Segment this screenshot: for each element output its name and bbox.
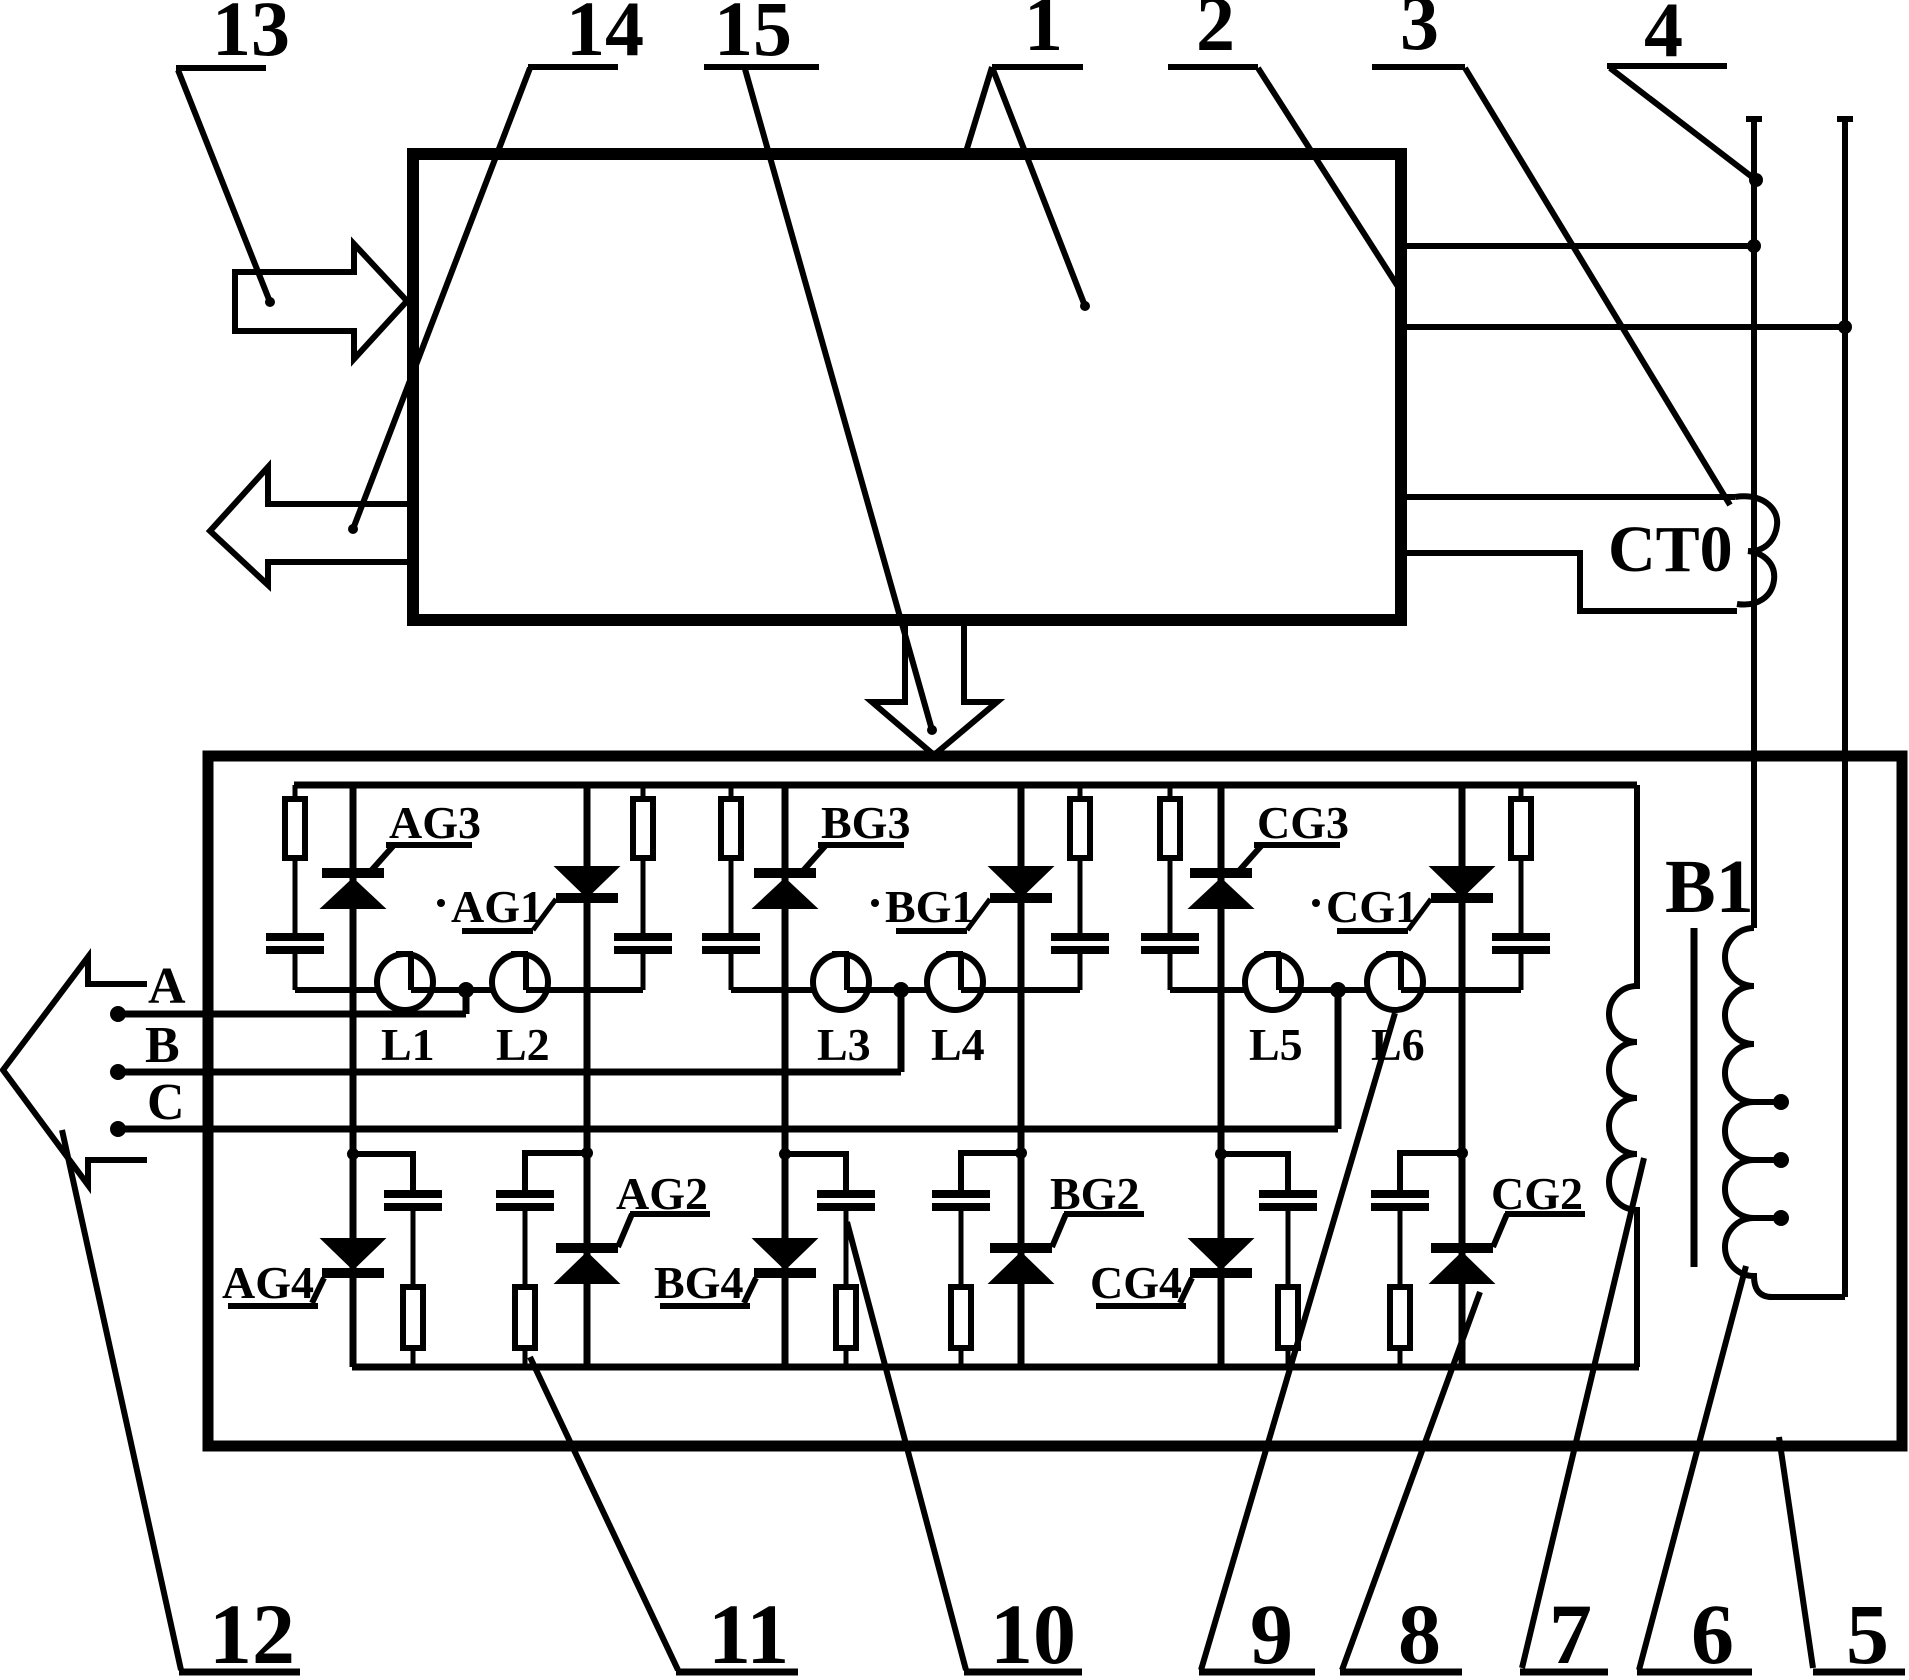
leader line 6: [1639, 1266, 1746, 1670]
leader line 8: [1342, 1292, 1480, 1670]
svg-text:CG4: CG4: [1090, 1257, 1182, 1308]
leader line 3: [1465, 68, 1730, 505]
svg-text:9: 9: [1250, 1586, 1293, 1680]
gate BG1: [967, 899, 990, 930]
bottom bus wire: [352, 1364, 1639, 1371]
svg-text:B: B: [145, 1017, 180, 1074]
svg-text:BG1: BG1: [885, 881, 974, 932]
gate AG4: [312, 1278, 324, 1303]
thyristor CG4: [1190, 1239, 1252, 1269]
leader line 10: [847, 1222, 966, 1670]
svg-text:5: 5: [1846, 1586, 1889, 1680]
capacitor CA1: [266, 933, 324, 941]
svg-text:L5: L5: [1249, 1019, 1303, 1070]
thyristor BG2: [990, 1243, 1052, 1253]
leader line 14: [353, 68, 530, 529]
transformer B1 secondary: [1725, 928, 1845, 1297]
bus vertical line 3: [1751, 116, 1757, 928]
svg-text:10: 10: [990, 1586, 1076, 1680]
capacitor CA4: [496, 1190, 554, 1198]
svg-text:11: 11: [708, 1586, 789, 1680]
gate CG4: [1180, 1278, 1192, 1303]
inductor L5: [1245, 954, 1301, 1010]
svg-text:B1: B1: [1665, 845, 1754, 929]
wire snubber AG4 hook: [353, 1154, 413, 1191]
junction hook CG2: [1456, 1147, 1468, 1159]
resistor RB2: [1078, 785, 1083, 799]
junction hook AG4: [347, 1148, 359, 1160]
capacitor CC3: [1259, 1190, 1317, 1198]
capacitor CC1: [1141, 933, 1199, 941]
thyristor AG3: [322, 868, 384, 878]
bus vertical line 4: [1842, 116, 1848, 1297]
svg-text:L1: L1: [381, 1019, 435, 1070]
resistor RC3: [1278, 1287, 1298, 1348]
top bus wire: [294, 782, 1637, 789]
leader line 7: [1522, 1158, 1644, 1668]
junction leader 4 on bus: [1749, 173, 1763, 187]
capacitor CA3: [384, 1190, 442, 1198]
svg-text:4: 4: [1644, 0, 1683, 73]
wire CT0 bottom step: [1404, 553, 1737, 611]
leader line 13: [178, 70, 270, 302]
leader line 2: [1258, 68, 1404, 296]
svg-text:C: C: [147, 1074, 185, 1131]
coil CT0: [1735, 496, 1777, 604]
svg-text:A: A: [148, 958, 186, 1015]
wire snubber B1 link: [731, 987, 813, 993]
resistor RB3: [836, 1287, 856, 1348]
down arrow: [872, 618, 997, 755]
tap 2 secondary: [1754, 1157, 1776, 1163]
wire CT0 top: [1404, 494, 1735, 500]
inductor L1: [377, 954, 433, 1010]
resistor RA4: [515, 1287, 535, 1348]
resistor RC1: [1168, 785, 1173, 799]
leader line 1b: [992, 67, 1085, 306]
thyristor column C left: [1218, 785, 1225, 1367]
svg-text:AG1: AG1: [451, 881, 543, 932]
svg-text:BG4: BG4: [654, 1257, 743, 1308]
wire loop link C: [1279, 987, 1338, 993]
svg-text:3: 3: [1400, 0, 1439, 66]
inductor L3: [813, 954, 869, 1010]
label CG1: [1312, 899, 1320, 907]
junction output line 2: [1838, 320, 1852, 334]
thyristor AG1: [556, 867, 618, 897]
junction output line 1: [1747, 239, 1761, 253]
junction hook BG2: [1015, 1147, 1027, 1159]
svg-text:L2: L2: [496, 1019, 550, 1070]
wire snubber CG2 hook: [1400, 1153, 1462, 1191]
resistor RC2: [1519, 785, 1524, 799]
transformer B1 primary: [1609, 785, 1637, 1367]
thyristor column B right: [1018, 785, 1025, 1367]
gate CG1: [1408, 899, 1431, 930]
resistor RA1: [293, 785, 298, 799]
resistor RB1: [729, 785, 734, 799]
wire snubber BG2 hook: [961, 1153, 1021, 1191]
wire snubber B2 link: [961, 987, 1080, 993]
gate CG2: [1493, 1214, 1507, 1247]
controller box 1: [413, 154, 1401, 620]
svg-text:CT0: CT0: [1608, 513, 1733, 586]
gate AG2: [618, 1214, 632, 1247]
label BG1: [871, 899, 879, 907]
resistor RC4: [1390, 1287, 1410, 1348]
wire snubber BG4 hook: [785, 1154, 846, 1191]
leader line 11: [530, 1357, 678, 1670]
leader line 12: [62, 1130, 181, 1670]
leader line 9: [1201, 1013, 1395, 1670]
junction loops B: [893, 982, 909, 998]
thyristor column A left: [350, 785, 357, 1367]
svg-text:12: 12: [209, 1586, 295, 1680]
svg-text:AG3: AG3: [389, 797, 481, 848]
capacitor CB3: [817, 1190, 875, 1198]
capacitor CC4: [1371, 1190, 1429, 1198]
riser phase C: [1335, 990, 1342, 1129]
wire loop link A: [411, 987, 466, 993]
gate AG3: [370, 845, 394, 872]
thyristor column B left: [782, 785, 789, 1367]
svg-text:CG3: CG3: [1257, 797, 1349, 848]
thyristor column A right: [584, 785, 591, 1367]
inductor L2: [492, 954, 548, 1010]
svg-text:AG4: AG4: [222, 1257, 314, 1308]
leader line 15: [745, 69, 932, 730]
svg-text:15: 15: [714, 0, 792, 72]
thyristor BG1: [990, 867, 1052, 897]
junction hook BG4: [779, 1148, 791, 1160]
leader line 4: [1610, 68, 1756, 180]
capacitor CC2: [1492, 933, 1550, 941]
leader line 1a: [965, 67, 992, 155]
wire snubber C2 link: [1401, 987, 1521, 993]
thyristor CG1: [1431, 867, 1493, 897]
svg-text:13: 13: [212, 0, 290, 72]
gate BG4: [744, 1278, 756, 1303]
wire snubber A2 link: [526, 987, 643, 993]
inductor L4: [927, 954, 983, 1010]
node phase C: [110, 1121, 126, 1137]
gate AG1: [533, 899, 556, 930]
resistor RA3: [403, 1287, 423, 1348]
gate BG2: [1052, 1214, 1066, 1247]
switch box 5: [208, 756, 1902, 1446]
svg-text:CG1: CG1: [1326, 881, 1418, 932]
inductor L6: [1367, 954, 1423, 1010]
phase C wire: [118, 1126, 1338, 1133]
thyristor AG4: [322, 1239, 384, 1269]
svg-text:L3: L3: [817, 1019, 871, 1070]
wire snubber A1 link: [295, 987, 377, 993]
junction loops A: [458, 982, 474, 998]
node phase B: [110, 1064, 126, 1080]
arrow tick bus 3: [1746, 116, 1762, 122]
wire snubber AG2 hook: [525, 1153, 587, 1191]
phase A wire: [118, 1011, 466, 1018]
thyristor AG2: [556, 1243, 618, 1253]
wire output line 1: [1404, 243, 1754, 249]
svg-text:2: 2: [1196, 0, 1235, 67]
junction hook AG2: [581, 1147, 593, 1159]
svg-text:8: 8: [1398, 1586, 1441, 1680]
thyristor column C right: [1459, 785, 1466, 1367]
wire snubber CG4 hook: [1221, 1154, 1288, 1191]
svg-text:14: 14: [566, 0, 644, 72]
node phase A: [110, 1006, 126, 1022]
thyristor BG4: [754, 1239, 816, 1269]
svg-text:7: 7: [1549, 1586, 1592, 1680]
junction hook CG4: [1215, 1148, 1227, 1160]
thyristor BG3: [754, 868, 816, 878]
capacitor CA2: [614, 933, 672, 941]
riser phase A: [463, 990, 470, 1014]
output arrow ABC: [3, 957, 147, 1185]
wire loop link B: [847, 987, 901, 993]
riser phase B: [898, 990, 905, 1072]
thyristor CG3: [1190, 868, 1252, 878]
arrow tick bus 4: [1837, 116, 1853, 122]
svg-text:L4: L4: [931, 1019, 985, 1070]
gate BG3: [802, 845, 826, 872]
resistor RA2: [641, 785, 646, 799]
wire snubber C1 link: [1170, 987, 1245, 993]
input arrow: [235, 244, 407, 359]
capacitor CB2: [1051, 933, 1109, 941]
phase B wire: [118, 1069, 901, 1076]
output arrow upper: [210, 467, 410, 585]
junction loops C: [1330, 982, 1346, 998]
gate CG3: [1238, 845, 1262, 872]
resistor RB4: [951, 1287, 971, 1348]
transformer B1 core: [1691, 928, 1698, 1267]
tap 3 secondary: [1754, 1215, 1776, 1221]
label AG1: [437, 899, 445, 907]
svg-text:1: 1: [1024, 0, 1063, 67]
leader line 5: [1779, 1437, 1813, 1668]
thyristor CG2: [1431, 1243, 1493, 1253]
capacitor CB4: [932, 1190, 990, 1198]
svg-text:6: 6: [1691, 1586, 1734, 1680]
svg-text:BG3: BG3: [821, 797, 910, 848]
capacitor CB1: [702, 933, 760, 941]
wire output line 2: [1404, 324, 1845, 330]
tap 1 secondary: [1754, 1099, 1776, 1105]
